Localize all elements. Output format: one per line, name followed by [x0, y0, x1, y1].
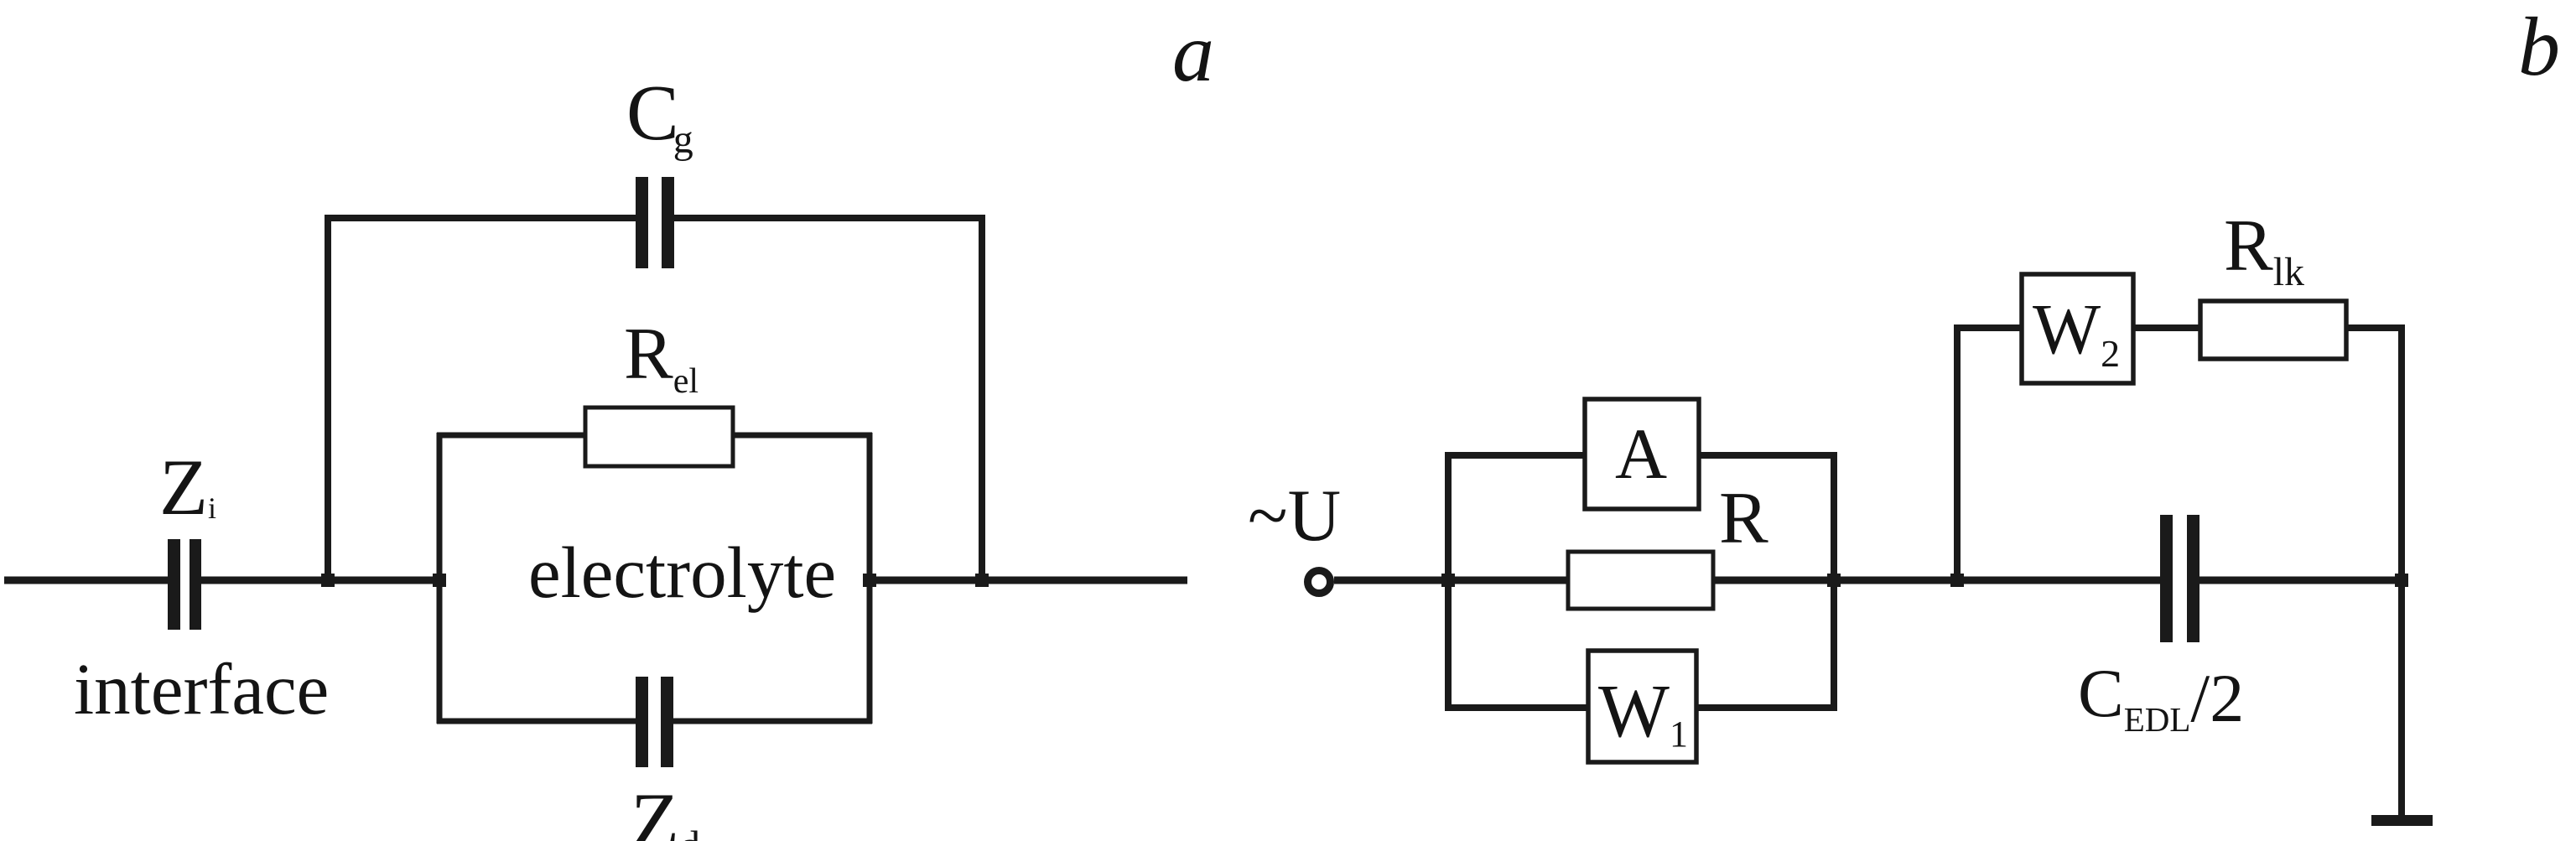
wire R_lk to right vertical: [2346, 324, 2405, 331]
electrolyte box bottom edge right part: [673, 719, 872, 724]
capacitor Z_d left plate: [636, 677, 648, 767]
wire parallel block bottom rail: [1445, 704, 1837, 711]
svg-text:R: R: [1719, 478, 1768, 559]
svg-text:Zi: Zi: [159, 443, 216, 532]
wire W2 to R_lk: [2133, 324, 2200, 331]
svg-text:a: a: [1172, 6, 1214, 99]
terminal circle ~U: [1308, 571, 1331, 594]
resistor R_el: [585, 408, 733, 466]
svg-text:b: b: [2518, 0, 2560, 93]
svg-text:~U: ~U: [1248, 475, 1341, 557]
svg-text:interface: interface: [74, 648, 329, 729]
electrolyte box right edge: [867, 433, 873, 724]
wire C_EDL to right vertical: [2199, 577, 2402, 584]
node dot at parallel block right: [1827, 574, 1841, 587]
capacitor Z_d right plate: [661, 677, 673, 767]
wire W2 branch vertical riser: [1954, 328, 1961, 580]
electrolyte box left edge: [437, 433, 443, 724]
wire parallel block left vertical: [1445, 452, 1452, 711]
capacitor C_g right plate: [662, 177, 674, 268]
electrolyte box bottom edge left part: [437, 719, 636, 724]
wire C_g loop top-left segment: [325, 215, 636, 221]
wire parallel block top rail: [1445, 452, 1837, 459]
capacitor C_EDL left plate: [2160, 515, 2173, 642]
wire main-left segment: [4, 577, 169, 584]
wire main segment Z_i to electrolyte box: [200, 577, 442, 584]
ammeter box A: [1585, 399, 1699, 509]
node dot at electrolyte box right: [863, 574, 876, 587]
capacitor Z_i left plate: [168, 539, 180, 630]
wire main-right segment of circuit a: [870, 577, 1187, 584]
svg-text:electrolyte: electrolyte: [528, 532, 836, 613]
resistor R_lk: [2200, 301, 2346, 359]
resistor R: [1568, 552, 1713, 609]
node dot at electrolyte box left: [433, 574, 446, 587]
node dot at parallel block left: [1441, 574, 1455, 587]
capacitor C_EDL right plate: [2187, 515, 2199, 642]
svg-text:A: A: [1615, 413, 1667, 494]
node dot at W2 branch: [1950, 574, 1964, 587]
capacitor Z_i right plate: [190, 539, 201, 630]
warburg box W1: [1588, 651, 1696, 762]
wire C_g loop right vertical: [979, 215, 985, 580]
wire parallel block middle rail: [1448, 577, 1834, 584]
wire C_g loop top-right segment: [674, 215, 982, 221]
wire parallel block right vertical: [1831, 452, 1837, 711]
node dot at C_g loop left on main wire: [321, 574, 335, 587]
node dot at C_g loop right on main wire: [975, 574, 989, 587]
node dot at right vertical on main wire: [2395, 574, 2408, 587]
wire riser to W2 box: [1954, 324, 2022, 331]
capacitor C_g left plate: [636, 177, 648, 268]
wire main segment to C_EDL: [1834, 577, 2160, 584]
wire C_g loop left vertical: [325, 215, 331, 580]
electrolyte box top edge: [437, 433, 872, 439]
ground: [2371, 815, 2433, 826]
wire from terminal to parallel block: [1334, 577, 1448, 584]
warburg box W2: [2022, 274, 2133, 383]
wire right vertical down to ground: [2398, 328, 2405, 815]
